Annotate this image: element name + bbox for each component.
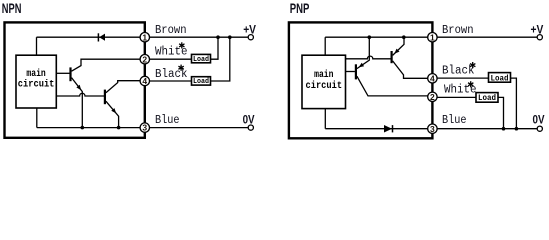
svg-text:1: 1 <box>430 32 435 42</box>
svg-text:1: 1 <box>142 32 147 42</box>
svg-text:4: 4 <box>430 73 435 83</box>
svg-text:Brown: Brown <box>442 24 474 37</box>
svg-text:2: 2 <box>142 54 147 64</box>
svg-text:Load: Load <box>478 94 496 103</box>
svg-text:Load: Load <box>193 56 209 64</box>
svg-text:Black: Black <box>442 65 475 78</box>
svg-text:3: 3 <box>430 124 435 134</box>
svg-text:circuit: circuit <box>306 80 343 92</box>
svg-text:+V: +V <box>243 24 256 36</box>
svg-text:Blue: Blue <box>155 114 180 127</box>
svg-text:+V: +V <box>531 24 544 36</box>
svg-text:PNP: PNP <box>290 0 310 16</box>
svg-text:Black: Black <box>155 68 188 81</box>
svg-text:0V: 0V <box>243 114 255 126</box>
svg-text:Brown: Brown <box>155 24 187 37</box>
svg-text:Blue: Blue <box>442 114 467 127</box>
svg-text:circuit: circuit <box>18 79 55 91</box>
svg-text:NPN: NPN <box>2 0 22 16</box>
svg-text:Load: Load <box>193 78 209 86</box>
svg-text:0V: 0V <box>533 114 545 126</box>
svg-text:4: 4 <box>142 76 147 86</box>
svg-text:3: 3 <box>142 123 147 133</box>
svg-text:White: White <box>155 45 188 58</box>
svg-text:2: 2 <box>430 92 435 102</box>
svg-text:Load: Load <box>491 74 509 83</box>
